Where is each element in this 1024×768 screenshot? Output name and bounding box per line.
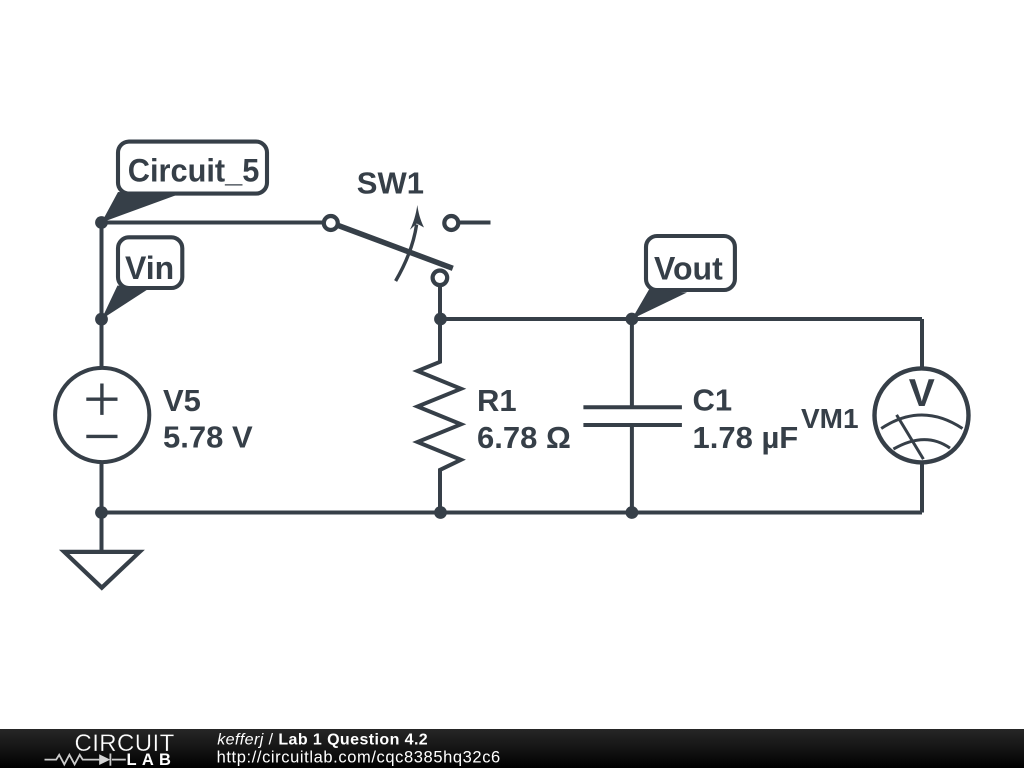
- svg-text:LAB: LAB: [127, 751, 177, 768]
- svg-text:kefferj / Lab 1 Question 4.2: kefferj / Lab 1 Question 4.2: [217, 732, 428, 749]
- svg-text:R1: R1: [477, 383, 517, 418]
- svg-text:Vout: Vout: [654, 251, 723, 287]
- svg-text:V5: V5: [163, 383, 201, 418]
- svg-text:C1: C1: [693, 383, 733, 418]
- svg-text:http://circuitlab.com/cqc8385h: http://circuitlab.com/cqc8385hq32c6: [217, 748, 501, 766]
- svg-text:V: V: [909, 372, 935, 415]
- svg-text:1.78 µF: 1.78 µF: [693, 420, 799, 455]
- svg-text:VM1: VM1: [801, 403, 859, 434]
- svg-text:Vin: Vin: [125, 250, 174, 286]
- svg-text:5.78 V: 5.78 V: [163, 420, 253, 455]
- svg-text:Circuit_5: Circuit_5: [128, 153, 259, 189]
- svg-text:6.78 Ω: 6.78 Ω: [477, 420, 571, 455]
- svg-text:SW1: SW1: [357, 166, 424, 201]
